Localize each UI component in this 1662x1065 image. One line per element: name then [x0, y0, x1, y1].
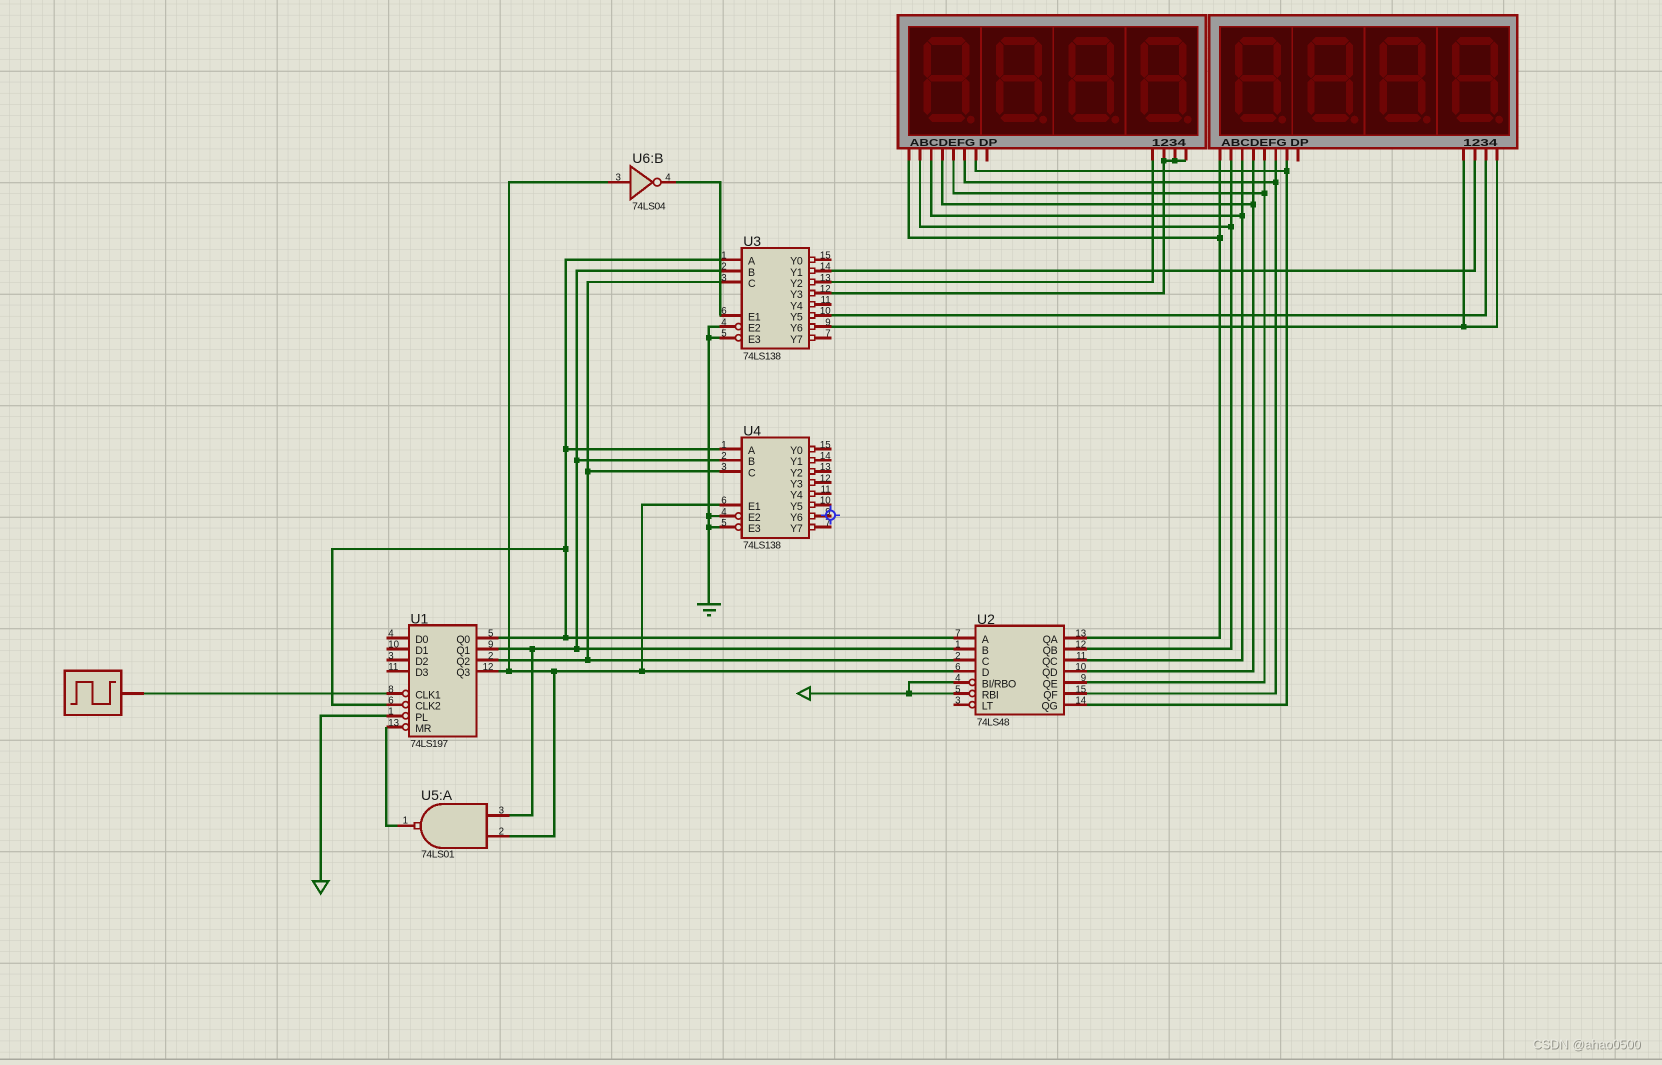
U1 pin numbers: [388, 629, 493, 729]
arrow terminal (down) on PL net: [313, 881, 328, 893]
junction SEG-F at DS2 column: [1273, 179, 1279, 185]
svg-text:1: 1: [955, 640, 960, 651]
U3 left pins A,B,C,E1,E2,E3: [720, 260, 742, 341]
svg-text:LT: LT: [982, 701, 994, 713]
U3 pin numbers: [721, 251, 831, 340]
junction SEG-A at DS2 column: [1217, 235, 1223, 241]
junction SEG-E at DS2 column: [1262, 191, 1268, 197]
U4 pin numbers: [721, 440, 831, 529]
U1 right pins Q0-Q3: [476, 638, 498, 671]
junction Q1 at U1.Q1 row: [574, 646, 580, 652]
junction DS1 digit2: [1161, 158, 1167, 164]
svg-text:74LS01: 74LS01: [421, 850, 455, 861]
inverter U6:B body: [630, 166, 652, 199]
NAND gate U5:A body (mirrored): [421, 804, 487, 848]
DS2 pins A-G,DP and 1-4: [1220, 148, 1497, 161]
wire net SEG-E: DS1.E - DS2.E - U2.QE: [954, 161, 1265, 683]
svg-text:U6:B: U6:B: [632, 150, 663, 166]
wire net Q1: U1.Q1 - U2.B - U4.B - U3.B - U5.3: [499, 271, 954, 816]
watermark CSDN @ahao0500: [1533, 1038, 1642, 1053]
U1 left pins D0-D3,CLK1,CLK2,PL,MR: [386, 638, 409, 730]
svg-text:1: 1: [403, 816, 408, 827]
svg-text:QF: QF: [1043, 690, 1058, 702]
wire net U6:B.4 - U3.E1: [676, 182, 720, 315]
junction Q1 at U4.B row: [574, 457, 580, 463]
svg-text:RBI: RBI: [982, 690, 999, 702]
arrow terminal (left) on RBI net: [798, 687, 810, 700]
svg-text:11: 11: [388, 662, 398, 673]
wire net U5:A.1 - U1.MR: [386, 727, 397, 826]
U6:B pin 4 stub: [661, 181, 676, 184]
junction Q2 at U4.C row: [585, 469, 591, 475]
svg-text:D: D: [982, 667, 990, 679]
svg-text:D1: D1: [415, 645, 428, 657]
svg-text:1: 1: [388, 707, 393, 718]
wire net SEG-A: DS1.A - DS2.A - U2.QA: [909, 161, 1220, 638]
U6:B output bubble: [653, 178, 661, 186]
svg-text:2: 2: [488, 651, 493, 662]
svg-text:10: 10: [1075, 662, 1086, 673]
svg-text:12: 12: [483, 662, 494, 673]
svg-text:U2: U2: [977, 611, 995, 627]
svg-text:14: 14: [1075, 696, 1086, 707]
U5:A pin numbers: [403, 806, 504, 838]
junction Q0 at U1.Q0 row: [563, 635, 569, 641]
svg-text:3: 3: [616, 173, 621, 184]
svg-text:3: 3: [721, 273, 726, 284]
svg-text:CSDN @ahao0500: CSDN @ahao0500: [1533, 1038, 1641, 1052]
wire net U3.Y5 - DS2 digit3: [831, 161, 1486, 316]
svg-text:C: C: [748, 278, 756, 290]
svg-text:QG: QG: [1042, 701, 1058, 713]
U4 pin names: [748, 445, 803, 535]
svg-text:74LS138: 74LS138: [743, 541, 781, 552]
svg-text:Y1: Y1: [790, 456, 803, 468]
junction BI/RBO-RBI: [906, 691, 912, 697]
svg-text:12: 12: [820, 473, 831, 484]
U6:B pin numbers: [616, 173, 672, 184]
svg-text:3: 3: [955, 696, 960, 707]
svg-text:1: 1: [721, 440, 726, 451]
wire net U2.BI/RBO - U2.RBI - arrow terminal: [809, 682, 953, 693]
svg-text:Y3: Y3: [790, 289, 803, 301]
svg-text:15: 15: [1075, 684, 1086, 695]
7-segment display DS2 (4-digit, common): [1209, 15, 1517, 149]
svg-text:Y4: Y4: [790, 490, 803, 502]
U2 right pins QA-QG: [1064, 638, 1087, 705]
svg-text:Q1: Q1: [456, 645, 470, 657]
svg-text:10: 10: [388, 640, 399, 651]
svg-text:14: 14: [820, 262, 831, 273]
U5:A pin 1 stub: [398, 824, 414, 827]
clock source output stub: [121, 692, 144, 695]
counter U1 body: [409, 625, 476, 736]
svg-text:E2: E2: [748, 323, 761, 335]
bottom edge strip: [0, 1058, 1662, 1060]
clock source waveform glyph: [71, 682, 117, 704]
svg-text:5: 5: [488, 629, 493, 640]
junction Q0 at CLK2 branch: [563, 546, 569, 552]
svg-text:4: 4: [721, 507, 727, 518]
svg-text:Y1: Y1: [790, 267, 803, 279]
svg-text:QB: QB: [1043, 645, 1058, 657]
svg-text:15: 15: [820, 251, 831, 262]
U4 right pins Y0-Y7: [809, 447, 831, 530]
junction GND at U4.E2: [706, 513, 712, 519]
svg-text:U5:A: U5:A: [421, 787, 453, 803]
junction Q1 at U5 branch: [530, 646, 536, 652]
svg-text:11: 11: [821, 295, 831, 306]
junction Q3 at U4.E1 branch: [639, 668, 645, 674]
svg-text:3: 3: [499, 806, 504, 817]
7-segment display DS1 (4-digit, common): [898, 15, 1206, 149]
svg-text:10: 10: [820, 496, 831, 507]
svg-text:6: 6: [955, 662, 960, 673]
U3 pin names: [748, 256, 803, 346]
svg-text:13: 13: [1075, 629, 1086, 640]
decoder U4 body: [742, 437, 809, 538]
svg-text:E3: E3: [748, 334, 761, 346]
wire net U3.Y2 - DS1 digit1: [831, 161, 1152, 282]
junction DS1 digit3: [1172, 158, 1178, 164]
U4 left pins A,B,C,E1,E2,E3: [720, 449, 742, 530]
svg-text:CLK1: CLK1: [415, 690, 441, 702]
svg-text:ABCDEFG DP: ABCDEFG DP: [910, 138, 998, 149]
svg-text:10: 10: [820, 306, 831, 317]
svg-text:4: 4: [955, 673, 961, 684]
svg-text:4: 4: [388, 629, 394, 640]
junction SEG-G at DS2 column: [1284, 168, 1290, 174]
svg-text:B: B: [982, 645, 989, 657]
U2 left pins A,B,C,D,BI/RBO,RBI,LT: [953, 638, 975, 708]
svg-text:C: C: [748, 467, 756, 479]
svg-text:74LS138: 74LS138: [743, 351, 781, 362]
svg-text:Y6: Y6: [790, 323, 803, 335]
svg-text:QD: QD: [1042, 667, 1058, 679]
svg-text:5: 5: [721, 518, 726, 529]
junction SEG-B at DS2 column: [1228, 224, 1234, 230]
svg-text:ABCDEFG DP: ABCDEFG DP: [1221, 138, 1309, 149]
wire net U3.Y3 - DS1 digits 2,3,4: [831, 161, 1186, 294]
svg-text:E3: E3: [748, 523, 761, 535]
wire net Q3: U1.Q3 - U2.D - U6:B.3 - U4.E1 - U5.2: [499, 182, 954, 836]
svg-text:2: 2: [721, 262, 726, 273]
mouse cursor crosshair at U4.Y6 pin: [821, 506, 840, 525]
svg-text:PL: PL: [415, 712, 428, 724]
svg-text:2: 2: [955, 651, 960, 662]
svg-text:4: 4: [665, 173, 671, 184]
svg-text:2: 2: [499, 826, 504, 837]
wire net Q0: U1.Q0 - U2.A - U4.A - U3.A - U1.CLK2: [332, 260, 953, 705]
U2 pin numbers: [955, 629, 1087, 707]
svg-text:6: 6: [721, 496, 726, 507]
ground: [697, 604, 721, 615]
U1 pin names: [415, 634, 470, 735]
U5:A pin 2 stub: [487, 835, 510, 838]
svg-text:5: 5: [721, 329, 726, 340]
svg-text:Y7: Y7: [790, 523, 803, 535]
svg-text:6: 6: [721, 306, 726, 317]
U2 pin names: [982, 634, 1059, 713]
svg-text:Y2: Y2: [790, 467, 803, 479]
svg-text:3: 3: [388, 651, 393, 662]
svg-text:U1: U1: [410, 610, 428, 626]
svg-text:11: 11: [1076, 651, 1086, 662]
svg-text:13: 13: [820, 462, 831, 473]
svg-text:9: 9: [1081, 673, 1086, 684]
svg-text:8: 8: [388, 684, 393, 695]
svg-text:4: 4: [721, 317, 727, 328]
svg-text:6: 6: [388, 696, 393, 707]
junction Q2 at U1.Q2 row: [585, 657, 591, 663]
U5:A pin 3 stub: [487, 814, 510, 817]
junction Q3 at U6 branch: [506, 668, 512, 674]
wire net U3.Y1 - DS2 digit2: [831, 161, 1475, 271]
DS1 pins A-G,DP and 1-4: [909, 148, 1186, 161]
wire net SEG-D: DS1.D - DS2.D - U2.QD: [942, 161, 1253, 672]
decoder U3 body: [742, 248, 809, 349]
U5:A output bubble: [415, 823, 421, 829]
svg-text:3: 3: [721, 462, 726, 473]
svg-text:U4: U4: [743, 423, 761, 439]
svg-text:E1: E1: [748, 311, 761, 323]
wire net SEG-G: DS1.G - DS2.G - U2.QG: [976, 161, 1287, 705]
wire net SEG-F: DS1.F - DS2.F - U2.QF: [965, 161, 1276, 694]
svg-text:11: 11: [821, 485, 831, 496]
junction Q0 at U4.A row: [563, 446, 569, 452]
svg-text:1234: 1234: [1463, 138, 1498, 149]
svg-text:13: 13: [388, 718, 399, 729]
junction GND at U4.E3: [706, 524, 712, 530]
junction Q3 at U5 branch: [551, 668, 557, 674]
junction GND at U3.E3: [706, 335, 712, 341]
svg-text:U3: U3: [743, 233, 761, 249]
svg-text:12: 12: [1075, 640, 1086, 651]
wire net GND: U3.E2,U3.E3,U4.E2,U4.E3 - ground: [709, 327, 720, 604]
svg-text:74LS04: 74LS04: [632, 201, 666, 212]
svg-text:MR: MR: [415, 723, 432, 735]
junction SEG-D at DS2 column: [1251, 202, 1257, 208]
svg-text:9: 9: [825, 317, 830, 328]
svg-text:14: 14: [820, 451, 831, 462]
decoder/driver U2 body: [976, 626, 1064, 715]
svg-text:74LS48: 74LS48: [977, 717, 1010, 728]
U6:B pin 3 stub: [608, 181, 630, 184]
wire net Q2: U1.Q2 - U2.C - U4.C - U3.C: [499, 282, 954, 660]
svg-text:1234: 1234: [1152, 138, 1187, 149]
svg-text:5: 5: [955, 684, 960, 695]
svg-text:B: B: [748, 267, 755, 279]
wire net U1.PL - arrow terminal: [321, 716, 387, 881]
wire net SEG-C: DS1.C - DS2.C - U2.QC: [931, 161, 1242, 660]
junction SEG-C at DS2 column: [1239, 213, 1245, 219]
wire net CLK: clock source - U1.CLK1: [144, 692, 387, 694]
U3 right pins Y0-Y7: [809, 257, 831, 340]
junction DS2 digit1 on Y6 net: [1461, 324, 1467, 330]
svg-text:Q3: Q3: [456, 667, 470, 679]
svg-text:Y5: Y5: [790, 311, 803, 323]
svg-text:13: 13: [820, 273, 831, 284]
svg-text:1: 1: [721, 251, 726, 262]
svg-text:7: 7: [825, 329, 830, 340]
wire net SEG-B: DS1.B - DS2.B - U2.QB: [920, 161, 1231, 649]
svg-text:74LS197: 74LS197: [410, 739, 448, 750]
svg-text:2: 2: [721, 451, 726, 462]
svg-text:Y7: Y7: [790, 334, 803, 346]
svg-text:12: 12: [820, 284, 831, 295]
clock source (square-wave generator) body: [65, 671, 122, 715]
wire net U3.Y6 - DS2 digits 4 and 1: [831, 161, 1497, 327]
svg-text:15: 15: [820, 440, 831, 451]
svg-text:7: 7: [955, 629, 960, 640]
svg-text:D3: D3: [415, 667, 428, 679]
svg-text:B: B: [748, 456, 755, 468]
svg-text:9: 9: [488, 640, 493, 651]
